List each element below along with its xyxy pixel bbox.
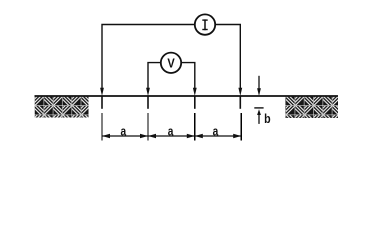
electrode 4 arrow [238, 88, 242, 96]
dimension b lower arrow [257, 109, 261, 115]
electrode 2 arrow [146, 88, 150, 96]
dim arrows a1 [102, 134, 110, 138]
svg-text:V: V [167, 56, 174, 71]
electrode 3 arrow [193, 88, 197, 96]
dimension line a1 [102, 135, 148, 137]
dimension line a2 [148, 135, 195, 137]
ground surface line [35, 95, 339, 97]
svg-text:a: a [120, 124, 126, 138]
dimension b upper arrow [257, 88, 261, 96]
extension line 1 [101, 113, 103, 141]
svg-text:a: a [213, 124, 219, 138]
dimension b upper line [258, 76, 260, 89]
svg-text:b: b [264, 111, 271, 126]
wire [181, 63, 195, 89]
dim arrows a2 [148, 134, 156, 138]
dimension b tick [254, 107, 263, 109]
ammeter I [195, 14, 215, 34]
extension line 4 [240, 113, 242, 141]
electrode 1 arrow [100, 88, 104, 96]
wire: voltage loop [148, 63, 161, 89]
svg-text:a: a [168, 124, 174, 138]
voltmeter V [161, 53, 181, 73]
dimension line a3 [195, 135, 241, 137]
extension line 2 [147, 113, 149, 141]
soil hatch right [285, 97, 338, 119]
electrode 1 buried [101, 96, 103, 109]
soil hatch left [35, 97, 89, 118]
wire [215, 25, 240, 90]
electrode 2 buried [147, 96, 149, 109]
wire: current loop top [102, 25, 195, 90]
dimension b lower line [258, 114, 260, 124]
label I (serif) [202, 19, 207, 30]
electrode 3 buried [194, 96, 196, 109]
dim arrows a3 [195, 134, 203, 138]
electrode 4 buried [239, 96, 241, 109]
extension line 3 [194, 113, 196, 141]
